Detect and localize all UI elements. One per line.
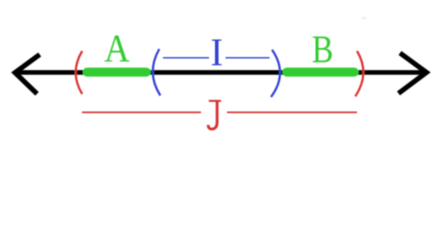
svg-text:I: I bbox=[210, 32, 222, 75]
svg-text:A: A bbox=[104, 27, 129, 70]
svg-text:B: B bbox=[312, 27, 333, 71]
